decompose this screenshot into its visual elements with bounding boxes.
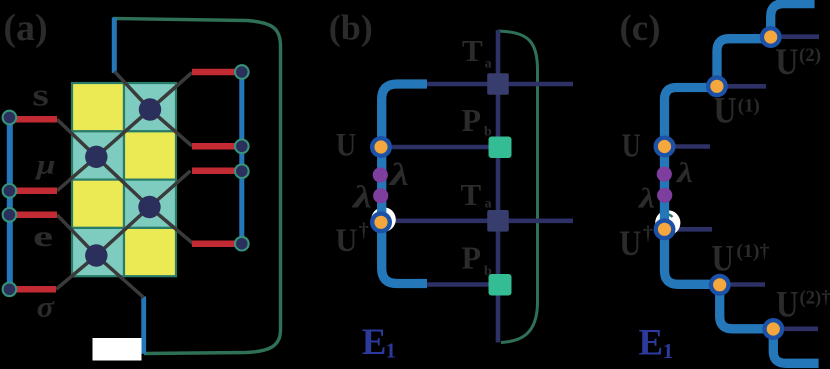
node U-dagger (b) [370, 211, 392, 233]
grid cell r2c2 yellow [124, 131, 176, 179]
lambda dot 1 (b) [373, 167, 388, 182]
wire: navy row P2 [427, 282, 500, 287]
wire: red leg right4 [192, 240, 235, 247]
wire: right blue bus (a) [239, 72, 244, 244]
svg-text:U: U [336, 128, 357, 164]
svg-text:U: U [619, 223, 641, 263]
label e [33, 220, 53, 253]
wire: green trace loop (a) [113, 19, 281, 354]
svg-text:U: U [714, 91, 737, 132]
wire: red leg s [13, 116, 57, 123]
tensor C4 [85, 244, 107, 266]
svg-text:(a): (a) [3, 7, 47, 49]
wire: diagonal C1 NW [115, 72, 151, 110]
wire: diagonal sigma-C4 [56, 256, 96, 290]
gate P_b 1 [489, 137, 512, 159]
label T_a 2 [461, 177, 492, 212]
svg-text:(2)†: (2)† [800, 288, 830, 309]
label U-dagger (c) [619, 223, 653, 264]
wire: navy stub U1 [727, 84, 766, 89]
wire: navy row T2 [391, 219, 573, 224]
node U-dagger (c) [654, 218, 676, 240]
tensor C1 [139, 98, 161, 120]
label (b) [329, 8, 373, 48]
svg-text:b: b [484, 125, 492, 140]
wire: diagonal C2-C3 [96, 157, 149, 207]
lambda dot 1 (c) [657, 167, 672, 182]
node right2 [235, 140, 249, 154]
wire: diagonal C4-bottom stub [96, 256, 143, 298]
lambda dot 2 (c) [657, 188, 672, 203]
wire: diagonal C1 SE [150, 110, 192, 147]
node U1-dagger (c) [709, 274, 731, 296]
svg-text:†: † [643, 223, 653, 245]
tensor C3 [138, 196, 160, 218]
wire: red leg right1 [192, 69, 235, 76]
svg-text:T: T [462, 33, 483, 68]
grid cell r3c2 teal [124, 180, 176, 228]
wire: navy row P1 [391, 145, 500, 150]
node U (b) [370, 136, 392, 158]
label U-dagger (b) [335, 220, 368, 260]
grid cell r2c1 teal [72, 131, 124, 179]
wire: green loop (b) [498, 31, 538, 343]
wire: blue staircase (c) [665, 4, 819, 364]
svg-text:U: U [776, 285, 799, 326]
svg-text:e: e [33, 220, 53, 253]
svg-text:U: U [775, 42, 798, 83]
wire: blue bracket (b) [382, 84, 427, 284]
wire: navy stub U2-dagger [784, 326, 819, 331]
label mu [34, 150, 56, 180]
svg-text:1: 1 [386, 339, 397, 363]
label U2 (c) [775, 42, 821, 83]
wire: navy stub U2 [781, 34, 819, 39]
svg-text:U: U [335, 223, 357, 259]
node right4 [235, 237, 249, 251]
label (a) [3, 7, 47, 49]
node U2-dagger (c) [762, 318, 784, 340]
svg-text:λ: λ [387, 156, 409, 192]
svg-text:(c): (c) [619, 8, 660, 49]
grid cell r1c2 teal [124, 83, 176, 131]
grid cell r4c1 teal [72, 228, 124, 276]
grid cell r1c1 yellow [72, 83, 124, 131]
label lambda left (b) [350, 179, 372, 215]
wire: diagonal C3 SE [150, 207, 194, 244]
label U (b) [336, 128, 357, 164]
lambda dot 2 (b) [373, 188, 388, 203]
svg-text:a: a [485, 57, 492, 72]
svg-text:1: 1 [663, 339, 674, 363]
wire: red leg right2 [192, 143, 235, 150]
wire: diagonal C1 NE [150, 73, 192, 110]
wire: red leg mu [13, 188, 57, 195]
node right3 [235, 164, 249, 178]
svg-text:(b): (b) [329, 8, 373, 48]
svg-text:†: † [359, 220, 369, 242]
svg-text:σ: σ [37, 291, 55, 324]
svg-text:T: T [461, 177, 482, 212]
svg-text:P: P [462, 240, 482, 276]
label T_a 1 [462, 33, 492, 72]
white halo behind U-dagger (c) [655, 210, 680, 235]
node U1 (c) [706, 75, 728, 97]
svg-text:E: E [639, 322, 664, 363]
svg-text:U: U [712, 238, 735, 279]
svg-text:U: U [622, 128, 641, 165]
gate T_a 2 [487, 210, 509, 232]
svg-text:λ: λ [676, 158, 693, 189]
white halo behind U-dagger (b) [371, 207, 396, 232]
wire: navy vertical bus (b) [496, 30, 501, 343]
label E_1 (c) [639, 322, 674, 363]
grid cell r3c1 yellow [72, 180, 124, 228]
label U (c) [622, 128, 641, 165]
label U2-dagger (c) [776, 285, 830, 326]
node U2 (c) [760, 26, 782, 48]
wire: red leg right3 [192, 168, 235, 175]
gate P_b 2 [489, 274, 512, 296]
wire: diagonal mu-C2 [57, 157, 96, 191]
svg-text:E: E [362, 322, 387, 363]
wire: red leg e [13, 212, 57, 219]
label (c) [619, 8, 660, 49]
node left1 [3, 111, 17, 125]
node left4 [3, 283, 17, 297]
svg-text:λ: λ [638, 184, 655, 215]
wire: diagonal C1-C2 [96, 110, 150, 157]
svg-text:a: a [485, 197, 492, 212]
label U1 (c) [714, 91, 760, 132]
node U (c) [654, 136, 676, 158]
svg-text:μ: μ [34, 150, 56, 180]
label lambda right (b) [387, 156, 409, 192]
node left2 [3, 184, 17, 198]
label sigma [37, 291, 55, 324]
label lambda left (c) [638, 184, 655, 215]
wire: diagonal C3 NE [150, 171, 191, 207]
node left3 [3, 208, 17, 222]
wire: diagonal C3-C4 [96, 207, 149, 256]
wire: blue top stub (a) [112, 18, 117, 74]
svg-text:P: P [462, 102, 482, 138]
wire: red leg sigma [13, 286, 56, 293]
wire: navy stub U-dagger [675, 227, 712, 232]
svg-text:(1)†: (1)† [736, 241, 770, 262]
label lambda right (c) [676, 158, 693, 189]
wire: navy stub U [675, 144, 710, 149]
wire: diagonal e-C4 [57, 215, 96, 256]
node right1 [235, 65, 249, 79]
wire: navy stub U1-dagger [730, 282, 765, 287]
tensor C2 [85, 146, 107, 168]
white patch [93, 338, 142, 361]
label s [32, 77, 49, 113]
label P_b 1 [462, 102, 493, 140]
wire: navy row T1 [427, 82, 573, 87]
label E_1 (b) [362, 322, 396, 363]
wire: blue bottom stub (a) [141, 297, 146, 354]
svg-text:λ: λ [350, 179, 372, 215]
label U1-dagger (c) [712, 238, 770, 279]
grid cell r4c2 yellow [124, 228, 176, 276]
label P_b 2 [462, 240, 493, 280]
svg-text:b: b [484, 264, 492, 279]
svg-text:(1): (1) [738, 96, 760, 117]
gate T_a 1 [487, 73, 509, 95]
svg-text:(2): (2) [799, 45, 821, 66]
wire: diagonal s-C2 [57, 119, 96, 157]
svg-text:s: s [32, 77, 49, 113]
wire: left blue bus (a) [7, 118, 13, 290]
